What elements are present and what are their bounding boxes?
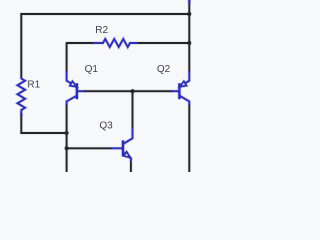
junction Q3 base branch (65, 146, 69, 150)
junction R2 right (187, 41, 191, 45)
transistor Q1 emitter arrow (70, 81, 77, 86)
transistor Q3 collector lead (123, 128, 132, 144)
junction base bus / Q3 collector (131, 89, 135, 93)
svg-text:R1: R1 (27, 80, 40, 91)
transistor Q2 collector lead (180, 96, 190, 105)
wire Q1 collector column down (66, 105, 68, 172)
wire Q3 collector up to base bus (132, 91, 134, 128)
transistor Q2 emitter lead (180, 71, 190, 87)
wire R2 row left (67, 42, 94, 44)
resistor R2 (93, 39, 138, 47)
transistor Q3 emitter lead (123, 153, 131, 162)
wire R1 bottom L to node (21, 113, 66, 133)
transistor Q2 base lead (171, 90, 179, 92)
wire right rail to Q2 emitter (188, 42, 190, 71)
soft halo underlay (17, 0, 191, 172)
transistor Q1 base lead (77, 90, 85, 92)
transistor Q3 base lead (111, 147, 123, 149)
junction R1 bottom (65, 131, 69, 135)
resistor R1 (17, 77, 25, 117)
transistor Q2 emitter arrow (180, 81, 187, 86)
wire right rail top (188, 0, 190, 43)
wire top rail + left rail (21, 14, 189, 77)
transistor Q1 collector lead (67, 96, 77, 105)
wire R2 row right (138, 42, 189, 44)
transistor Q1 emitter lead (67, 71, 77, 87)
transistor Q3 bar (122, 140, 124, 156)
svg-text:Q2: Q2 (157, 64, 171, 75)
svg-text:Q1: Q1 (85, 64, 99, 75)
transistor Q3 emitter arrow (124, 152, 131, 158)
wire Q2 collector down (188, 105, 190, 172)
transistor Q2 bar (178, 83, 180, 99)
wire Q3 emitter down (130, 162, 132, 172)
wire left column below R2 corner (66, 42, 68, 71)
svg-text:R2: R2 (95, 25, 108, 36)
node V+ lead tip (188, 0, 190, 5)
svg-text:Q3: Q3 (99, 120, 113, 131)
wire base bus Q1-Q2 (84, 90, 172, 92)
junction top right (187, 12, 191, 16)
transistor Q1 bar (76, 83, 78, 99)
wire node to Q3 base (67, 147, 112, 149)
